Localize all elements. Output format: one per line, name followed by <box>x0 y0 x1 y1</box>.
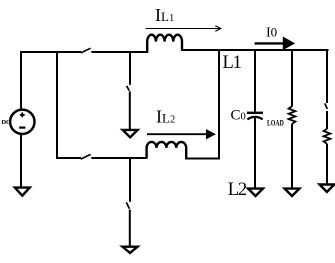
current arrow IL1 <box>146 26 221 32</box>
ground (auxiliary branch) <box>320 185 335 192</box>
svg-text:I0: I0 <box>266 25 277 41</box>
wire: L2 output to output-node vertical <box>185 158 220 160</box>
wire: LOAD branch from top rail <box>291 49 293 107</box>
wire: L1 output to top-right rail <box>181 49 329 51</box>
svg-text:IL1: IL1 <box>155 5 174 25</box>
wire: auxiliary branch middle segment <box>326 111 328 129</box>
DC source minus sign <box>19 126 25 128</box>
svg-text:DC: DC <box>2 119 11 126</box>
switch S3 (phase 1 rectifier blade) <box>127 86 130 91</box>
wire: C0 to ground <box>254 116 256 188</box>
wire: phase-1 rectifier branch upper segment <box>129 51 131 85</box>
current arrow I0 <box>255 39 293 49</box>
wire: C0 branch from top rail <box>254 49 256 112</box>
wire: S2 to inductor L2 left leg (node at x=130) <box>91 157 147 159</box>
wire: phase-2 rectifier branch lower segment <box>129 210 131 247</box>
capacitor C0 bottom curved plate <box>247 117 262 120</box>
resistor LOAD zigzag <box>289 106 296 124</box>
svg-text:C0: C0 <box>231 108 246 124</box>
ground (below LOAD) <box>285 189 300 196</box>
capacitor C0 top plate <box>247 112 263 114</box>
wire: DC- to ground <box>20 134 22 187</box>
svg-text:L1: L1 <box>223 53 242 73</box>
switch S5 (auxiliary branch blade) <box>325 103 328 109</box>
wire: DC+ vertical and top-left rail to switch S1 <box>21 52 81 110</box>
svg-text:LOAD: LOAD <box>267 118 284 128</box>
ground (below DC source) <box>15 188 30 196</box>
wire: phase-1 rectifier branch lower segment <box>129 91 131 130</box>
ground marker arrow (phase 1 rectifier) <box>123 130 138 137</box>
wire: auxiliary branch to ground <box>326 144 328 185</box>
wire: phase-2 rectifier branch upper segment <box>129 158 131 202</box>
ground (phase 2 rectifier) <box>123 247 138 253</box>
ground (below C0) <box>248 189 263 196</box>
wire: LOAD to ground <box>291 124 293 189</box>
switch S1 (phase 1 top switch blade) <box>81 48 91 53</box>
switch S4 (phase 2 rectifier blade) <box>126 202 129 208</box>
inductor L1 <box>147 35 182 53</box>
wire: right auxiliary branch upper segment <box>326 49 328 103</box>
wire: input bus vertical x=57 to bottom rail <box>56 51 58 159</box>
svg-text:IL2: IL2 <box>156 107 175 127</box>
resistor R2 zigzag (auxiliary branch) <box>324 129 331 144</box>
current arrow IL2 <box>147 131 214 138</box>
DC source plus sign <box>20 112 25 117</box>
wire: output node vertical joining L2 output to top rail <box>218 49 220 159</box>
switch S2 (phase 2 switch blade) <box>81 154 91 159</box>
wire: bottom rail to switch S2 <box>56 157 81 159</box>
svg-text:L2: L2 <box>228 180 247 200</box>
DC source V1 circle <box>10 110 34 134</box>
wire: S1 to inductor L1 left leg (node at x=130) <box>91 51 148 53</box>
inductor L2 <box>147 142 187 159</box>
